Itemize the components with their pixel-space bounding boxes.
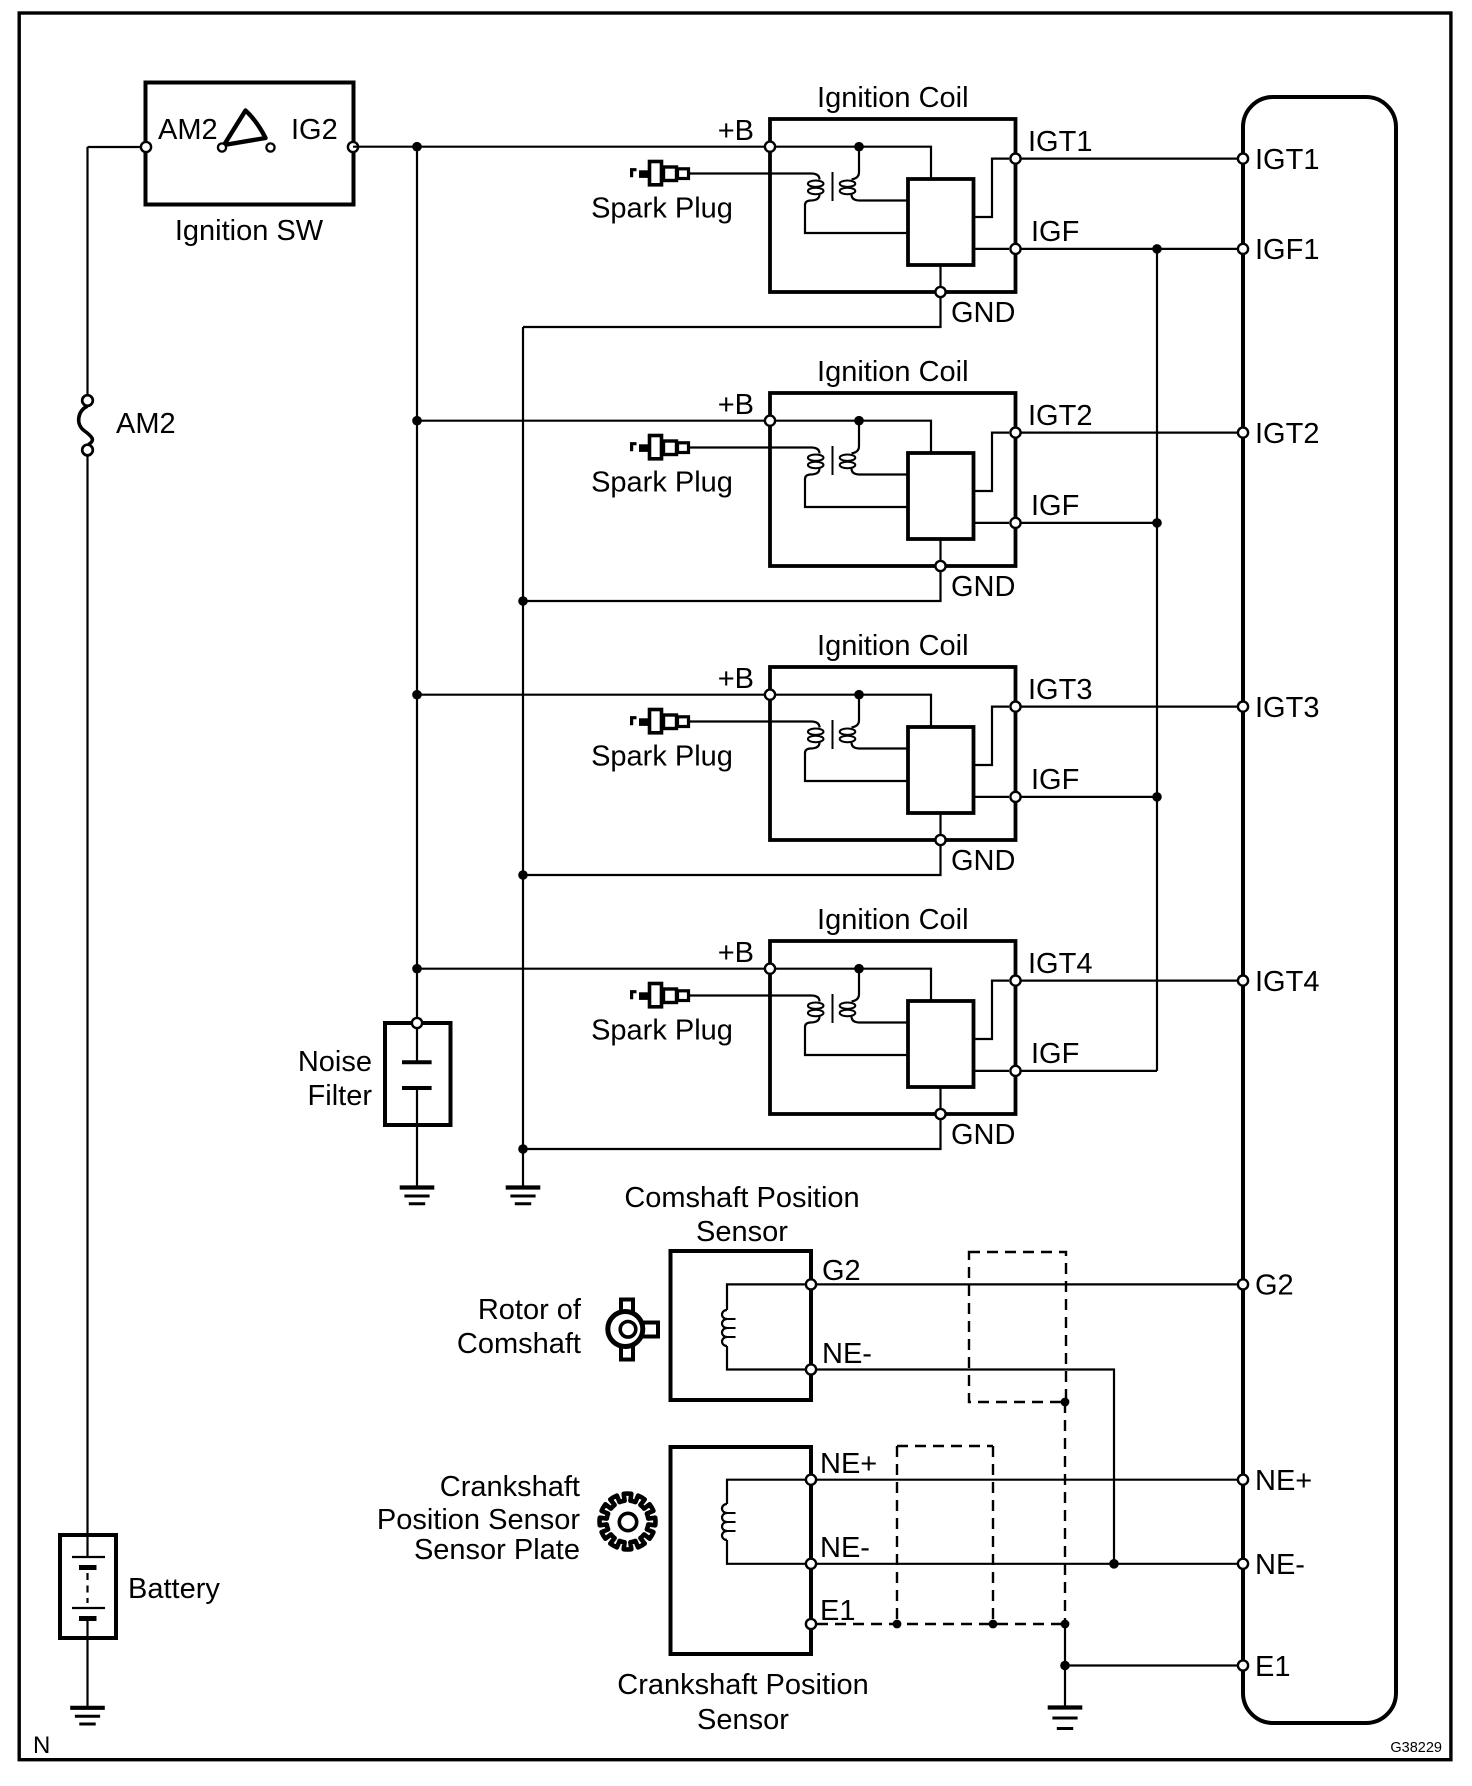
junction dot transformer tap (coil 2) [854,416,864,426]
wire IGF coil 2 to bus [1021,522,1157,524]
ECM pin IGT2 [1238,428,1248,438]
ignition switch box [146,83,354,205]
svg-text:Sensor: Sensor [697,1704,789,1736]
terminal IGF (coil 2) [1010,518,1020,528]
ECM pin NE+ [1238,1475,1248,1485]
svg-text:IGT2: IGT2 [1255,418,1319,450]
wire spark plug 1 to transformer [688,172,812,174]
terminal IGT3 (coil) [1010,702,1020,712]
junction dot transformer tap (coil 3) [854,690,864,700]
wire GND (coil 2) to ground bus [523,570,941,601]
junction dot E1 shield 3 [1061,1620,1070,1629]
wire IGF1 to ECM [1021,248,1238,250]
wire IGT3 to ECM [1021,705,1238,707]
wire GND (coil 4) to ground bus [523,1118,941,1149]
svg-text:Comshaft: Comshaft [457,1328,581,1360]
wire AM2 terminal to left bus [88,146,147,148]
junction dot E1 shield 2 [989,1620,998,1629]
transformer T4 core [832,994,834,1023]
svg-text:IGF: IGF [1031,490,1079,522]
svg-text:IGT3: IGT3 [1255,692,1319,724]
wire +B branch coil 3 [417,694,770,696]
noise filter box [385,1023,451,1125]
terminal IGT1 (coil) [1010,154,1020,164]
spark plug 1 [632,162,689,185]
ECM connector outline [1243,97,1396,1723]
terminal NE+ (crankshaft sensor) [806,1475,816,1485]
svg-text:IGF: IGF [1031,1038,1079,1070]
terminal IGF (coil 4) [1010,1066,1020,1076]
svg-text:IGF: IGF [1031,764,1079,796]
svg-text:IGT3: IGT3 [1028,674,1092,706]
svg-text:Comshaft Position: Comshaft Position [624,1182,859,1214]
terminal IGT2 (coil) [1010,428,1020,438]
svg-text:NE-: NE- [1255,1549,1305,1581]
ignition coil 1 box [770,119,1016,292]
crankshaft sensor pickup coil L2 [722,1504,727,1540]
wire E1 dashed shield [817,1623,1065,1625]
junction dot ground bus coil 3 [518,870,528,880]
terminal NE- (crankshaft sensor) [806,1559,816,1569]
svg-text:GND: GND [951,297,1015,329]
svg-text:IGT4: IGT4 [1255,966,1319,998]
junction dot +B bus top [412,142,422,152]
wire spark plug 4 to transformer [688,994,812,996]
wire IGF internal (coil 4) [974,1070,1010,1072]
svg-text:NE-: NE- [820,1532,870,1564]
svg-text:IGT1: IGT1 [1255,144,1319,176]
svg-text:Ignition Coil: Ignition Coil [817,82,969,114]
switch wiper [224,111,266,146]
terminal noise filter [412,1018,422,1028]
wire IGT internal (coil 4) [974,981,1010,1039]
ECM pin IGT1 [1238,154,1248,164]
junction dot +B branch 4 [412,964,422,974]
spark plug 4 [632,984,689,1007]
terminal IGT4 (coil) [1010,976,1020,986]
ECM pin E1 [1238,1660,1248,1670]
svg-text:NE-: NE- [822,1338,872,1370]
wire IG2 to coil 1 +B [353,146,770,148]
transformer T1 primary winding [805,174,908,234]
wire left bus lower (fuse to battery) [86,456,88,1536]
ECM pin IGF1 [1238,244,1248,254]
switch contact right [266,143,274,151]
igniter transistor Q2 [908,453,974,539]
junction dot E1 shield 1 [893,1620,902,1629]
junction dot shield corner [1061,1398,1070,1407]
igniter transistor Q3 [908,727,974,813]
rotor of camshaft icon [608,1300,658,1360]
svg-text:E1: E1 [1255,1651,1290,1683]
svg-text:Ignition SW: Ignition SW [175,215,324,247]
ground (coil ground bus) [506,1188,541,1204]
camshaft sensor pickup coil L1 [722,1310,727,1346]
svg-text:Ignition Coil: Ignition Coil [817,630,969,662]
transformer T3 secondary winding [840,698,908,749]
svg-text:Sensor: Sensor [696,1216,788,1248]
ground (noise filter) [400,1188,435,1204]
wire coil ground bus vertical [522,327,524,1187]
terminal +B (coil 3) [765,690,775,700]
svg-text:Filter: Filter [308,1080,373,1112]
wire +B internal (coil 4) [773,969,931,1001]
wire NE- to ECM [817,1563,1238,1565]
transformer T1 core [832,172,834,201]
svg-text:Battery: Battery [128,1573,220,1605]
wire IGT internal (coil 1) [974,159,1010,217]
junction dot +B branch 2 [412,416,422,426]
svg-text:GND: GND [951,1119,1015,1151]
shield dashed drain wire (camshaft) [1064,1402,1066,1624]
junction dot ground bus coil 2 [518,596,528,606]
ECM pin IGT4 [1238,976,1248,986]
svg-text:Crankshaft Position: Crankshaft Position [617,1669,868,1701]
svg-text:Spark Plug: Spark Plug [591,741,733,773]
wire +B internal (coil 3) [773,695,931,727]
crankshaft sensor plate gear icon [600,1494,656,1550]
svg-text:E1: E1 [820,1595,855,1627]
wire +B bus vertical [416,147,418,1018]
svg-text:IG2: IG2 [291,114,338,146]
fuse AM2 [79,395,93,455]
wire +B internal (coil 2) [773,421,931,453]
svg-text:IGT1: IGT1 [1028,126,1092,158]
svg-text:AM2: AM2 [116,408,176,440]
terminal IG2 (switch) [348,142,358,152]
wire GND (coil 3) to ground bus [523,844,941,875]
svg-text:AM2: AM2 [158,114,218,146]
svg-text:IGT2: IGT2 [1028,400,1092,432]
wire GND internal (coil 2) [939,539,941,562]
svg-text:GND: GND [951,571,1015,603]
wire IGF internal (coil 2) [974,522,1010,524]
wire NE+ to ECM [817,1479,1238,1481]
igniter transistor Q4 [908,1001,974,1087]
ECM pin NE- [1238,1559,1248,1569]
transformer T4 secondary winding [840,972,908,1023]
terminal IGF (coil 1) [1010,244,1020,254]
wire E1 to ground [1064,1666,1066,1708]
svg-text:IGT4: IGT4 [1028,948,1092,980]
shield dashed box (crankshaft sensor) [897,1445,993,1447]
junction dot IGF bus coil 3 [1152,792,1162,802]
svg-text:+B: +B [718,389,754,421]
svg-text:Sensor Plate: Sensor Plate [414,1534,580,1566]
svg-text:Spark Plug: Spark Plug [591,1015,733,1047]
wire GND internal (coil 3) [939,813,941,836]
transformer T2 primary winding [805,448,908,508]
wire IGT1 to ECM [1021,158,1238,160]
svg-text:+B: +B [718,663,754,695]
wire spark plug 3 to transformer [688,720,812,722]
junction dot IGF bus top [1152,244,1162,254]
svg-text:NE+: NE+ [820,1448,877,1480]
wire IGT2 to ECM [1021,432,1238,434]
terminal +B (coil 2) [765,416,775,426]
ECM pin IGT3 [1238,702,1248,712]
transformer T2 secondary winding [840,424,908,475]
transformer T3 primary winding [805,722,908,782]
wire GND (coil 1) to ground bus [523,296,941,327]
crankshaft position sensor box [671,1447,812,1654]
ground (battery) [70,1708,105,1724]
ECM pin G2 [1238,1279,1248,1289]
wire camshaft NE- to NE- node [817,1370,1114,1564]
terminal GND (coil 4) [935,1109,945,1119]
junction dot E1 node [1060,1661,1070,1671]
svg-text:Crankshaft: Crankshaft [440,1471,580,1503]
battery [60,1535,116,1640]
svg-text:G38229: G38229 [1390,1740,1442,1756]
junction dot IGF bus coil 2 [1152,518,1162,528]
svg-text:IGF: IGF [1031,216,1079,248]
terminal +B (coil 1) [765,142,775,152]
svg-text:Spark Plug: Spark Plug [591,467,733,499]
ignition coil 4 box [770,941,1016,1114]
terminal G2 (camshaft sensor) [806,1279,816,1289]
wire IGT internal (coil 3) [974,707,1010,765]
junction dot ground bus coil 4 [518,1144,528,1154]
wire IGF internal (coil 1) [974,248,1010,250]
ignition coil 2 box [770,393,1016,566]
svg-text:+B: +B [718,937,754,969]
svg-text:GND: GND [951,845,1015,877]
wire IGF coil 3 to bus [1021,796,1157,798]
wire IGT internal (coil 2) [974,433,1010,491]
svg-text:Spark Plug: Spark Plug [591,193,733,225]
camshaft sensor pickup coil wiring [727,1284,806,1310]
junction dot NE- [1109,1559,1119,1569]
crankshaft sensor pickup coil wiring [727,1480,806,1504]
svg-text:Ignition Coil: Ignition Coil [817,904,969,936]
svg-text:Noise: Noise [298,1046,372,1078]
wire GND internal (coil 4) [939,1087,941,1110]
wire battery to ground [86,1638,88,1707]
terminal E1 (crankshaft sensor) [806,1619,816,1629]
terminal GND (coil 2) [935,561,945,571]
wire E1 node [1065,1624,1238,1666]
ignition coil 3 box [770,667,1016,840]
svg-text:NE+: NE+ [1255,1465,1312,1497]
igniter transistor Q1 [908,179,974,265]
svg-text:Position Sensor: Position Sensor [377,1504,580,1536]
junction dot transformer tap (coil 1) [854,142,864,152]
transformer T3 core [832,720,834,749]
wire +B branch coil 4 [417,968,770,970]
wire left bus upper (to fuse) [86,147,88,395]
terminal +B (coil 4) [765,964,775,974]
svg-text:+B: +B [718,115,754,147]
ground (E1) [1048,1708,1083,1729]
transformer T4 primary winding [805,996,908,1056]
wire IGF coil 4 to bus [1021,1070,1157,1072]
terminal NE- (camshaft sensor) [806,1364,816,1374]
wire GND internal (coil 1) [939,265,941,288]
junction dot +B branch 3 [412,690,422,700]
shield dashed box (camshaft sensor) [969,1252,1066,1402]
svg-text:N: N [33,1732,50,1759]
wire IGF internal (coil 3) [974,796,1010,798]
switch contact left [218,143,226,151]
wire +B branch coil 2 [417,420,770,422]
transformer T1 secondary winding [840,150,908,201]
svg-text:G2: G2 [1255,1270,1294,1302]
svg-text:IGF1: IGF1 [1255,234,1319,266]
transformer T2 core [832,446,834,475]
wire spark plug 2 to transformer [688,446,812,448]
terminal AM2 (switch) [141,142,151,152]
wire IGT4 to ECM [1021,979,1238,981]
camshaft position sensor box [671,1251,812,1400]
noise filter capacitor [402,1029,432,1187]
wire +B internal (coil 1) [773,147,931,179]
wire IGF bus vertical [1156,249,1158,1071]
terminal IGF (coil 3) [1010,792,1020,802]
svg-text:Ignition Coil: Ignition Coil [817,356,969,388]
spark plug 2 [632,436,689,459]
spark plug 3 [632,710,689,733]
svg-text:Rotor of: Rotor of [478,1294,582,1326]
svg-text:G2: G2 [822,1255,861,1287]
terminal GND (coil 3) [935,835,945,845]
terminal GND (coil 1) [935,287,945,297]
junction dot transformer tap (coil 4) [854,964,864,974]
wire G2 to ECM [817,1283,1238,1285]
